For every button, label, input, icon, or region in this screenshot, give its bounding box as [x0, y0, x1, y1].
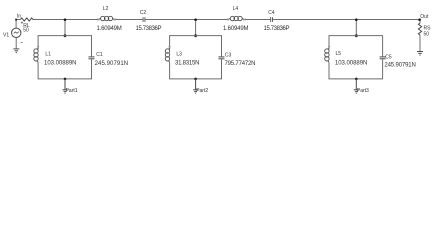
svg-text:1.60949M: 1.60949M	[223, 26, 249, 32]
capacitor C5	[380, 57, 386, 59]
pin mark L2 right	[114, 19, 116, 21]
inductor L2	[98, 16, 114, 20]
wire V1 bottom lead to ground	[15, 37, 17, 48]
svg-text:245.90791N: 245.90791N	[95, 61, 129, 67]
svg-text:Part1: Part1	[66, 88, 78, 94]
svg-text:Part3: Part3	[357, 88, 369, 94]
pin mark L4 left	[227, 19, 229, 21]
pin mark L4 right	[244, 19, 246, 21]
wire V1 top lead	[15, 20, 17, 29]
capacitor C3	[219, 57, 225, 59]
wire L2 to C2	[115, 19, 143, 21]
V1 minus mark	[21, 42, 23, 44]
svg-text:Out: Out	[420, 14, 429, 20]
wire C4 to Out	[273, 19, 420, 21]
svg-text:Part2: Part2	[196, 88, 208, 94]
wire C2 to L4	[145, 19, 228, 21]
svg-text:103.00889N: 103.00889N	[44, 61, 77, 67]
pin mark L1 top	[37, 46, 39, 48]
wire stub rail to Part2	[195, 20, 197, 36]
resistor RS	[418, 23, 421, 35]
Part1 box wires	[38, 36, 91, 79]
svg-text:V1: V1	[3, 32, 9, 38]
wire In node to RL	[16, 19, 20, 21]
svg-text:15.73836P: 15.73836P	[136, 26, 162, 32]
svg-text:L2: L2	[103, 6, 109, 12]
junction dot Part2 bottom	[194, 78, 197, 81]
node In dot	[15, 19, 17, 21]
V1 plus mark	[21, 22, 23, 24]
ground of Part1	[63, 79, 68, 93]
junction dot Part1 bottom	[64, 78, 67, 81]
junction dot Out	[418, 18, 421, 21]
pin mark L3 top	[169, 46, 171, 48]
inductor L3	[165, 48, 169, 64]
inductor L5	[325, 48, 329, 64]
wire L4 to C4	[245, 19, 271, 21]
svg-text:795.77472N: 795.77472N	[225, 61, 256, 67]
svg-text:31.8315N: 31.8315N	[175, 61, 200, 67]
wire RS top lead	[419, 20, 421, 24]
wire RS bottom lead to ground	[419, 35, 421, 51]
svg-text:L4: L4	[233, 6, 239, 12]
svg-text:245.90791N: 245.90791N	[384, 63, 415, 69]
svg-text:103.00889N: 103.00889N	[335, 60, 368, 66]
wire main rail segment RL to L2	[33, 19, 98, 21]
ground of Part3	[354, 79, 359, 93]
inductor L4	[228, 16, 244, 20]
svg-text:1.60949M: 1.60949M	[97, 26, 122, 32]
svg-text:C2: C2	[140, 10, 147, 16]
junction dot rail-Part3	[355, 18, 358, 21]
svg-text:L3: L3	[176, 52, 182, 58]
capacitor C1	[89, 57, 95, 59]
ground of V1	[13, 49, 19, 53]
capacitor C2	[143, 17, 145, 22]
Part2 box wires	[170, 36, 222, 79]
junction dot Part1 top	[64, 34, 67, 37]
svg-text:L5: L5	[336, 51, 342, 57]
svg-text:C5: C5	[385, 54, 392, 60]
svg-text:RS: RS	[424, 25, 432, 31]
junction dot Part2 top	[194, 34, 197, 37]
svg-text:C1: C1	[96, 52, 103, 58]
wire stub rail to Part3	[355, 20, 357, 36]
svg-text:L1: L1	[45, 52, 51, 58]
ground of Part2	[193, 79, 198, 93]
pin mark L5 top	[328, 46, 330, 48]
capacitor C4	[271, 17, 273, 22]
svg-text:C3: C3	[225, 52, 232, 58]
svg-text:15.73836P: 15.73836P	[264, 26, 290, 32]
junction dot Part3 bottom	[355, 78, 358, 81]
wire stub rail to Part1	[64, 20, 66, 36]
resistor RL	[21, 18, 34, 21]
junction dot rail-Part2	[194, 18, 197, 21]
svg-text:50: 50	[424, 32, 430, 38]
svg-text:C4: C4	[268, 10, 275, 16]
voltage source V1	[12, 28, 21, 37]
inductor L1	[34, 48, 38, 64]
Part3 box wires	[329, 36, 383, 79]
svg-text:50: 50	[23, 27, 29, 33]
junction dot Part3 top	[355, 34, 358, 37]
ground of RS	[417, 52, 423, 56]
junction dot rail-Part1	[64, 18, 67, 21]
pin mark L2 left	[97, 19, 99, 21]
